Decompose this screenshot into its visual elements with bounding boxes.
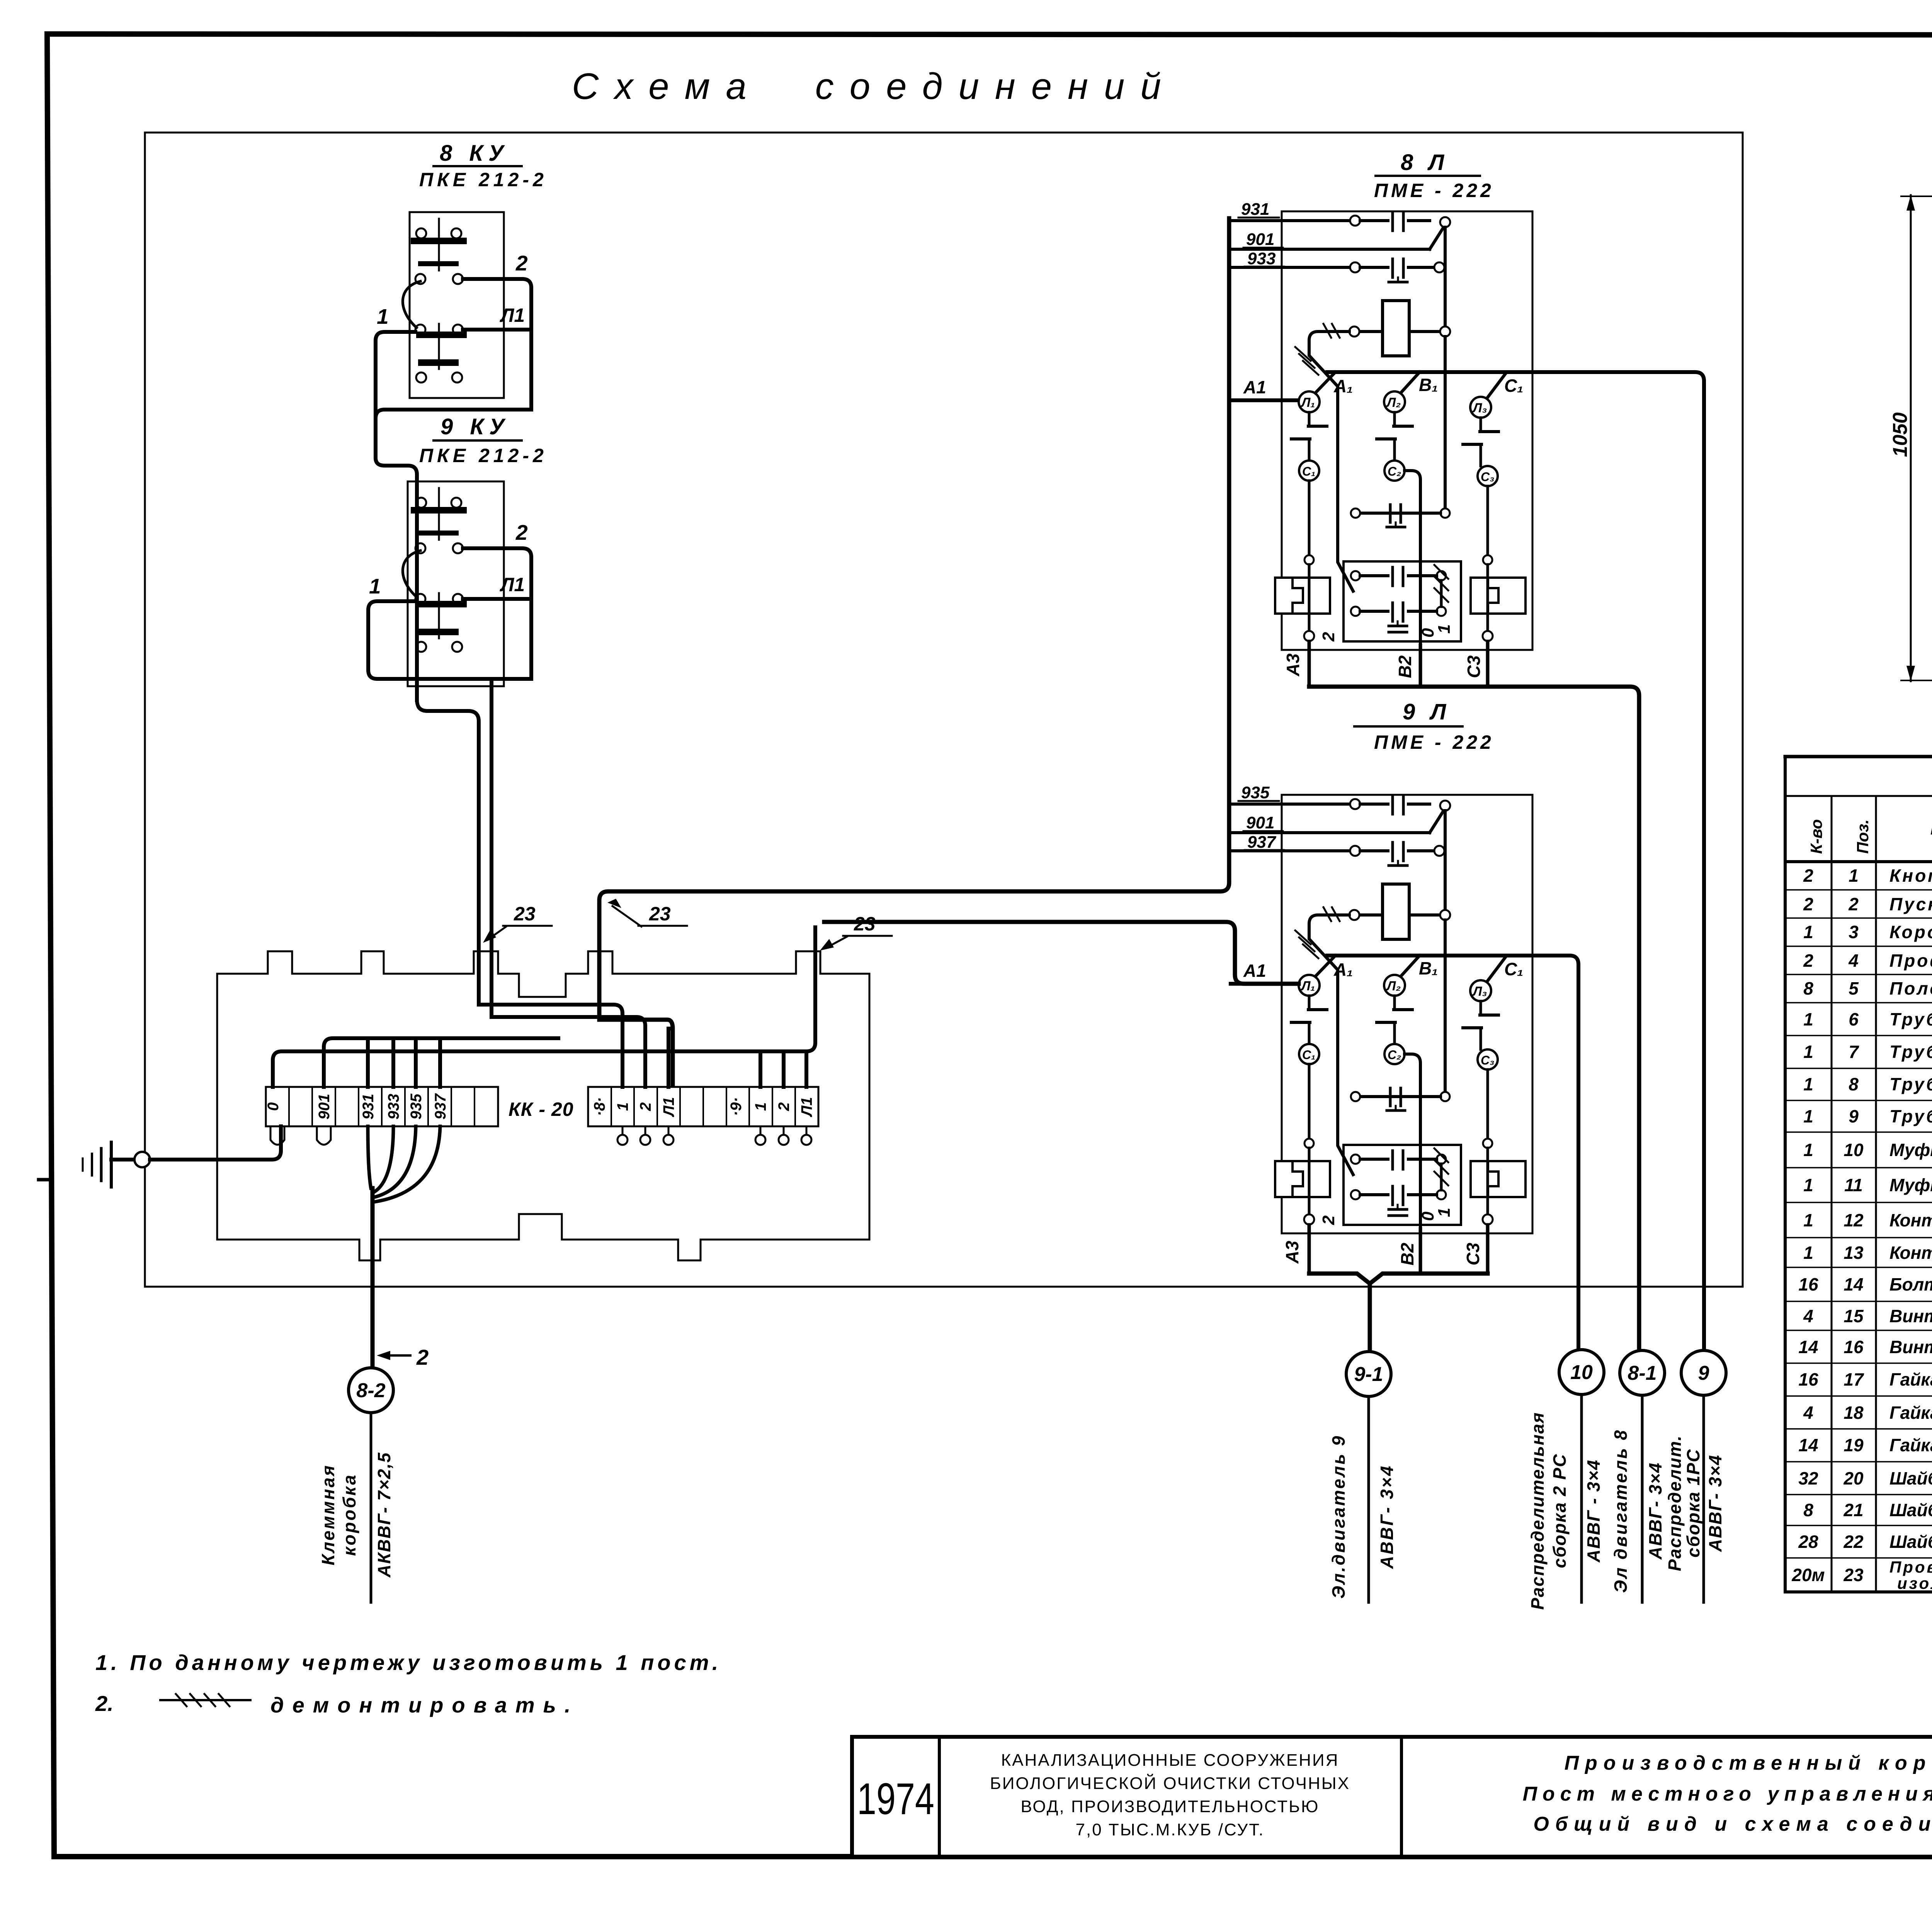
svg-text:23: 23 (854, 913, 876, 935)
wire from А1 line down into right strip (9 group) (273, 927, 815, 1087)
svg-text:К-во: К-во (1807, 819, 1825, 854)
demount arrow 2 at cable 8-2 (383, 1354, 410, 1357)
svg-text:изолированный: изолированный (1897, 1574, 1932, 1592)
wire С3 exit of 8Л (1486, 641, 1490, 687)
svg-text:КАНАЛИЗАЦИОННЫЕ СООРУЖЕНИЯ: КАНАЛИЗАЦИОННЫЕ СООРУЖЕНИЯ (1001, 1751, 1339, 1770)
svg-text:Профиль монтажный: Профиль монтажный (1889, 951, 1932, 971)
svg-text:8: 8 (1803, 978, 1813, 998)
svg-text:16: 16 (1798, 1274, 1818, 1294)
wires from buttons into right strip (8 group) (479, 1005, 622, 1087)
svg-text:12: 12 (1844, 1210, 1864, 1230)
control wire bundle (931/933/935/937/901) riser (599, 218, 1229, 1087)
project name block (990, 1751, 1350, 1839)
cable tag Клеммная коробка / АКВВГ-7х2,5 (318, 1452, 394, 1578)
svg-text:сборка 2 РС: сборка 2 РС (1549, 1454, 1570, 1568)
svg-text:АВВГ - 3×4: АВВГ - 3×4 (1583, 1459, 1604, 1563)
cable tag Распределительная сборка 2РС / АВВГ-3х4 (1527, 1412, 1604, 1610)
svg-text:901: 901 (1246, 813, 1274, 832)
svg-text:ПКЕ 212-2: ПКЕ 212-2 (419, 169, 548, 190)
cable circle 9 (to distribution assembly 1РС) (1681, 1350, 1726, 1395)
svg-text:Труба: Труба (1889, 1074, 1932, 1094)
inner schematic boundary frame (145, 133, 1743, 1287)
svg-text:22: 22 (1843, 1532, 1864, 1552)
wire from 8Л poles to distribution assembly 1РС (1532, 372, 1704, 1350)
svg-text:В2: В2 (1397, 1243, 1417, 1265)
svg-text:9: 9 (1698, 1362, 1709, 1384)
svg-text:демонтировать.: демонтировать. (270, 1693, 579, 1717)
svg-text:Наименование: Наименование (1930, 817, 1932, 839)
svg-text:Эл двигатель 8: Эл двигатель 8 (1611, 1428, 1631, 1593)
svg-text:8: 8 (1849, 1074, 1859, 1094)
svg-text:8 КУ: 8 КУ (440, 141, 509, 166)
svg-text:Труба: Труба (1889, 1009, 1932, 1029)
svg-text:8 Л: 8 Л (1401, 150, 1449, 175)
svg-text:1. По данному чертежу изго: 1. По данному чертежу изготовить 1 пост. (95, 1650, 721, 1675)
svg-text:1: 1 (1803, 1140, 1813, 1160)
wire number labels 935 901 937 (1241, 783, 1277, 852)
svg-text:АКВВГ- 7×2,5: АКВВГ- 7×2,5 (374, 1452, 394, 1578)
left terminal strip of КК-20 (266, 1087, 498, 1126)
collector bar of 9Л to motor 9 (1309, 1274, 1488, 1351)
svg-text:1050: 1050 (1889, 412, 1912, 457)
right strip terminal numbers (591, 1097, 815, 1117)
collector bar of 8Л to motor 8 (1309, 687, 1639, 1350)
svg-text:16: 16 (1844, 1337, 1864, 1357)
svg-text:13: 13 (1844, 1243, 1864, 1263)
cable circle 10 (to distribution assembly 2РС) (1559, 1350, 1604, 1394)
wire С3 exit of 9Л (1486, 1225, 1490, 1274)
specification table (1785, 755, 1932, 758)
svg-text:4: 4 (1803, 1403, 1813, 1423)
svg-text:21: 21 (1843, 1500, 1863, 1520)
svg-text:ПМЕ - 222: ПМЕ - 222 (1374, 180, 1494, 201)
push-button station 8КУ (ПКЕ 212-2) (410, 212, 504, 398)
svg-text:14: 14 (1844, 1274, 1863, 1294)
svg-text:6: 6 (1849, 1009, 1859, 1029)
svg-text:БИОЛОГИЧЕСКОЙ ОЧИСТКИ СТОЧНЫХ: БИОЛОГИЧЕСКОЙ ОЧИСТКИ СТОЧНЫХ (990, 1773, 1350, 1793)
svg-text:Л1: Л1 (500, 574, 525, 595)
svg-text:Клеммная: Клеммная (318, 1464, 338, 1565)
svg-text:1: 1 (1803, 1009, 1813, 1029)
wire 1 of 9КУ (368, 601, 531, 679)
svg-text:1: 1 (1849, 866, 1859, 886)
wire 2 of 8КУ (463, 279, 531, 410)
svg-text:АВВГ- 3×4: АВВГ- 3×4 (1645, 1462, 1665, 1560)
svg-text:КК - 20: КК - 20 (509, 1099, 574, 1120)
svg-text:1: 1 (614, 1102, 631, 1111)
svg-text:14: 14 (1798, 1337, 1818, 1357)
title block (852, 1737, 1932, 1857)
svg-text:2: 2 (515, 520, 528, 544)
svg-text:901: 901 (316, 1094, 333, 1120)
magnetic starter 8Л (ПМЕ-222) (1231, 211, 1532, 650)
svg-text:8: 8 (1803, 1500, 1813, 1520)
svg-text:Контргайка ГОСТ 8961- 59: Контргайка ГОСТ 8961- 59 (1889, 1243, 1932, 1263)
svg-text:10: 10 (1570, 1361, 1593, 1384)
svg-text:14: 14 (1798, 1435, 1818, 1455)
svg-text:931: 931 (1241, 200, 1269, 219)
svg-text:2: 2 (1803, 951, 1813, 971)
svg-text:1: 1 (1803, 1042, 1813, 1062)
svg-text:Поз.: Поз. (1854, 820, 1872, 854)
svg-text:19: 19 (1844, 1435, 1864, 1455)
wire bundle below 8КУ (376, 410, 531, 418)
svg-text:937: 937 (1247, 833, 1277, 852)
svg-text:коробка: коробка (339, 1473, 359, 1556)
svg-text:2: 2 (1803, 894, 1813, 914)
svg-text:1: 1 (1803, 1074, 1813, 1094)
svg-text:Шайба 8 ГОСТ 11371-: Шайба 8 ГОСТ 11371- 70 (1889, 1500, 1932, 1520)
svg-text:937: 937 (432, 1093, 449, 1119)
svg-text:28: 28 (1798, 1532, 1818, 1552)
svg-text:931: 931 (360, 1094, 377, 1120)
svg-text:9-1: 9-1 (1354, 1363, 1383, 1386)
cable tag Распределит. сборка 1РС / АВВГ-3х4 (1665, 1435, 1725, 1571)
svg-text:1974: 1974 (857, 1774, 934, 1824)
svg-text:5: 5 (1849, 978, 1859, 998)
svg-text:933: 933 (385, 1094, 402, 1120)
terminal box КК-20 panel outline (217, 951, 869, 1260)
svg-text:1: 1 (1803, 1243, 1813, 1263)
svg-text:23: 23 (1843, 1565, 1864, 1585)
wire number labels 931 901 933 (1241, 200, 1276, 268)
svg-text:ПМЕ - 222: ПМЕ - 222 (1374, 731, 1494, 753)
svg-text:сборка 1РС: сборка 1РС (1683, 1449, 1703, 1558)
svg-text:А3: А3 (1282, 1241, 1302, 1264)
fold tick on left frame edge (39, 1178, 51, 1182)
svg-text:Гайка М 6. ГОСТ 5915-: Гайка М 6. ГОСТ 5915- 70 (1889, 1369, 1932, 1389)
svg-text:4: 4 (1803, 1306, 1813, 1326)
wire 2 of 9КУ (463, 548, 531, 679)
svg-text:7,0 ТЫС.М.КУБ /СУТ.: 7,0 ТЫС.М.КУБ /СУТ. (1076, 1820, 1265, 1839)
svg-text:Распределительная: Распределительная (1527, 1412, 1548, 1610)
label 9Л / ПМЕ-222 (1374, 699, 1494, 753)
merged wires from left strip to cable 8-2 (368, 1126, 371, 1188)
svg-text:Гайка М 5 ГОСТ 5915- 7: Гайка М 5 ГОСТ 5915- 70 (1889, 1435, 1932, 1455)
svg-text:Распределит.: Распределит. (1665, 1435, 1685, 1571)
svg-text:Гайка М 8 ГОСТ 5915 -: Гайка М 8 ГОСТ 5915 - 70 (1889, 1403, 1932, 1423)
svg-text:Коробка клеммная: Коробка клеммная (1889, 922, 1932, 942)
wire of 8КУ passing inside 9КУ box (415, 481, 419, 700)
svg-text:Л1: Л1 (660, 1097, 677, 1117)
svg-text:Контргайка ГОСТ 8961-59: Контргайка ГОСТ 8961-59 (1889, 1210, 1932, 1230)
svg-text:Производственный корпус.: Производственный корпус. (1565, 1752, 1932, 1774)
push-button station 9КУ (ПКЕ 212-2) (408, 481, 504, 686)
svg-text:933: 933 (1247, 249, 1276, 268)
svg-text:Труба: Труба (1889, 1106, 1932, 1126)
svg-text:·9·: ·9· (728, 1097, 745, 1116)
svg-text:·8·: ·8· (591, 1097, 608, 1116)
svg-text:Пускатель магнитный: Пускатель магнитный (1889, 894, 1932, 914)
wire А1 to 9Л (824, 922, 1299, 984)
svg-text:11: 11 (1844, 1175, 1863, 1195)
svg-text:935: 935 (408, 1093, 425, 1119)
svg-text:1: 1 (377, 304, 389, 328)
svg-text:С3: С3 (1464, 655, 1484, 678)
svg-text:23: 23 (514, 903, 536, 925)
svg-text:2: 2 (515, 251, 528, 275)
svg-text:2: 2 (1803, 866, 1813, 886)
label 8 КУ / ПКЕ 212-2 (419, 141, 548, 190)
wire В2 exit of 8Л (1419, 645, 1422, 687)
sheet name block (1523, 1752, 1932, 1835)
wire Л1 of 9КУ (463, 597, 530, 601)
wire А3 exit of 8Л (1308, 641, 1311, 687)
svg-text:9: 9 (1849, 1106, 1859, 1126)
svg-text:16: 16 (1798, 1369, 1818, 1389)
svg-text:8-2: 8-2 (356, 1379, 385, 1402)
svg-text:Муфта переходная Гост 8957-5: Муфта переходная Гост 8957-59 (1889, 1175, 1932, 1195)
svg-text:Провод медный: Провод медный (1889, 1558, 1932, 1576)
svg-text:Общий вид и схема соединен: Общий вид и схема соединений (1533, 1813, 1932, 1835)
svg-text:901: 901 (1246, 230, 1274, 249)
svg-text:935: 935 (1241, 783, 1270, 802)
svg-text:Шайба 6 ГОСТ 11371-: Шайба 6 ГОСТ 11371- 70 (1889, 1468, 1932, 1488)
svg-text:Кнопка управления: Кнопка управления (1889, 866, 1932, 886)
svg-text:2: 2 (637, 1102, 654, 1111)
svg-text:Эл.двигатель 9: Эл.двигатель 9 (1328, 1434, 1349, 1599)
svg-text:АВВГ- 3×4: АВВГ- 3×4 (1377, 1464, 1397, 1569)
svg-text:1: 1 (1803, 1106, 1813, 1126)
wire В2 exit of 9Л (1419, 1229, 1422, 1274)
wire 1 of 8КУ (376, 332, 417, 700)
wire lugs under left strip (270, 1126, 284, 1145)
svg-text:Винт М 5 × 16 ГОСТ 17473: Винт М 5 × 16 ГОСТ 17473-72 (1889, 1337, 1932, 1357)
ground wire and node (111, 1158, 134, 1161)
svg-text:17: 17 (1844, 1369, 1864, 1389)
svg-text:Л1: Л1 (500, 304, 525, 326)
svg-text:20: 20 (1843, 1468, 1864, 1488)
svg-text:9 КУ: 9 КУ (440, 414, 510, 439)
label 8Л / ПМЕ-222 (1374, 150, 1494, 201)
svg-text:4: 4 (1848, 951, 1859, 971)
cable circle 9-1 (to motor 9) (1346, 1352, 1391, 1396)
right terminal strip of КК-20 (588, 1087, 818, 1126)
left strip terminal numbers (265, 1093, 449, 1119)
label 9 КУ / ПКЕ 212-2 (419, 414, 548, 466)
svg-text:Пост местного управления 8П: Пост местного управления 8ПМУ. (1523, 1783, 1932, 1805)
svg-text:20м: 20м (1791, 1565, 1825, 1585)
wire from bundle riser into right strip Л1 (667, 1029, 670, 1087)
wire Л1 of 8КУ (463, 328, 530, 332)
svg-text:Муфта переходная ГОСТ 8957 59: Муфта переходная ГОСТ 8957 59 (1889, 1140, 1932, 1160)
svg-text:С3: С3 (1463, 1243, 1483, 1265)
svg-text:1: 1 (369, 574, 381, 598)
svg-text:АВВГ- 3×4: АВВГ- 3×4 (1705, 1454, 1725, 1552)
svg-text:8-1: 8-1 (1628, 1362, 1656, 1384)
wire from 9Л poles to distribution assembly 2РС (1532, 956, 1578, 1350)
svg-text:Полоса монтажная: Полоса монтажная (1889, 978, 1932, 998)
terminal pins under right strip (622, 1126, 624, 1135)
svg-text:Л1: Л1 (798, 1097, 815, 1117)
svg-text:Труба: Труба (1889, 1042, 1932, 1062)
ground symbol (110, 1142, 113, 1187)
cable circle 8-1 (to motor 8) (1620, 1350, 1665, 1395)
svg-text:2: 2 (776, 1102, 793, 1111)
svg-text:32: 32 (1798, 1468, 1818, 1488)
svg-text:Схема соединений: Схема соединений (572, 66, 1177, 107)
svg-text:9 Л: 9 Л (1403, 699, 1451, 724)
svg-text:0: 0 (265, 1102, 282, 1111)
wire drop pair from buttons to terminal box (417, 700, 479, 1005)
svg-text:1: 1 (752, 1102, 769, 1111)
svg-text:18: 18 (1844, 1403, 1864, 1423)
svg-text:10: 10 (1844, 1140, 1864, 1160)
table headers (1807, 800, 1932, 855)
svg-text:3: 3 (1849, 922, 1859, 942)
cable tag Эл двигатель 8 / АВВГ-3х4 (1611, 1428, 1665, 1593)
wires into left strip cells (324, 1038, 558, 1087)
svg-text:1: 1 (1803, 922, 1813, 942)
svg-text:7: 7 (1849, 1042, 1859, 1062)
svg-text:В2: В2 (1395, 655, 1415, 678)
wire А3 exit of 9Л (1308, 1225, 1311, 1274)
svg-text:Шайба 5 ГОСТ 11371-: Шайба 5 ГОСТ 11371- 70 (1889, 1532, 1932, 1552)
svg-text:2.: 2. (95, 1691, 114, 1716)
svg-text:15: 15 (1844, 1306, 1864, 1326)
cable circle 8-2 (to terminal box) (349, 1368, 393, 1413)
svg-text:Винт М 8 × 16 ГОСТ 17473: Винт М 8 × 16 ГОСТ 17473-72 (1889, 1306, 1932, 1326)
magnetic starter 9Л (ПМЕ-222) (1231, 795, 1532, 1233)
svg-text:ВОД, ПРОИЗВОДИТЕЛЬНОСТЬЮ: ВОД, ПРОИЗВОДИТЕЛЬНОСТЬЮ (1021, 1797, 1320, 1816)
svg-text:23: 23 (649, 903, 671, 925)
svg-text:2: 2 (416, 1345, 429, 1369)
svg-text:Болт М 6 × 20 ГОСТ 7798-: Болт М 6 × 20 ГОСТ 7798- 70 (1889, 1274, 1932, 1294)
svg-text:2: 2 (1848, 894, 1859, 914)
dimension 1050 (1910, 195, 1912, 681)
svg-text:1: 1 (1803, 1210, 1813, 1230)
cable tag Эл.двигатель 9 / АВВГ-3х4 (1328, 1434, 1397, 1599)
svg-text:ПКЕ 212-2: ПКЕ 212-2 (419, 445, 548, 466)
svg-text:1: 1 (1803, 1175, 1813, 1195)
svg-text:А3: А3 (1283, 653, 1303, 677)
